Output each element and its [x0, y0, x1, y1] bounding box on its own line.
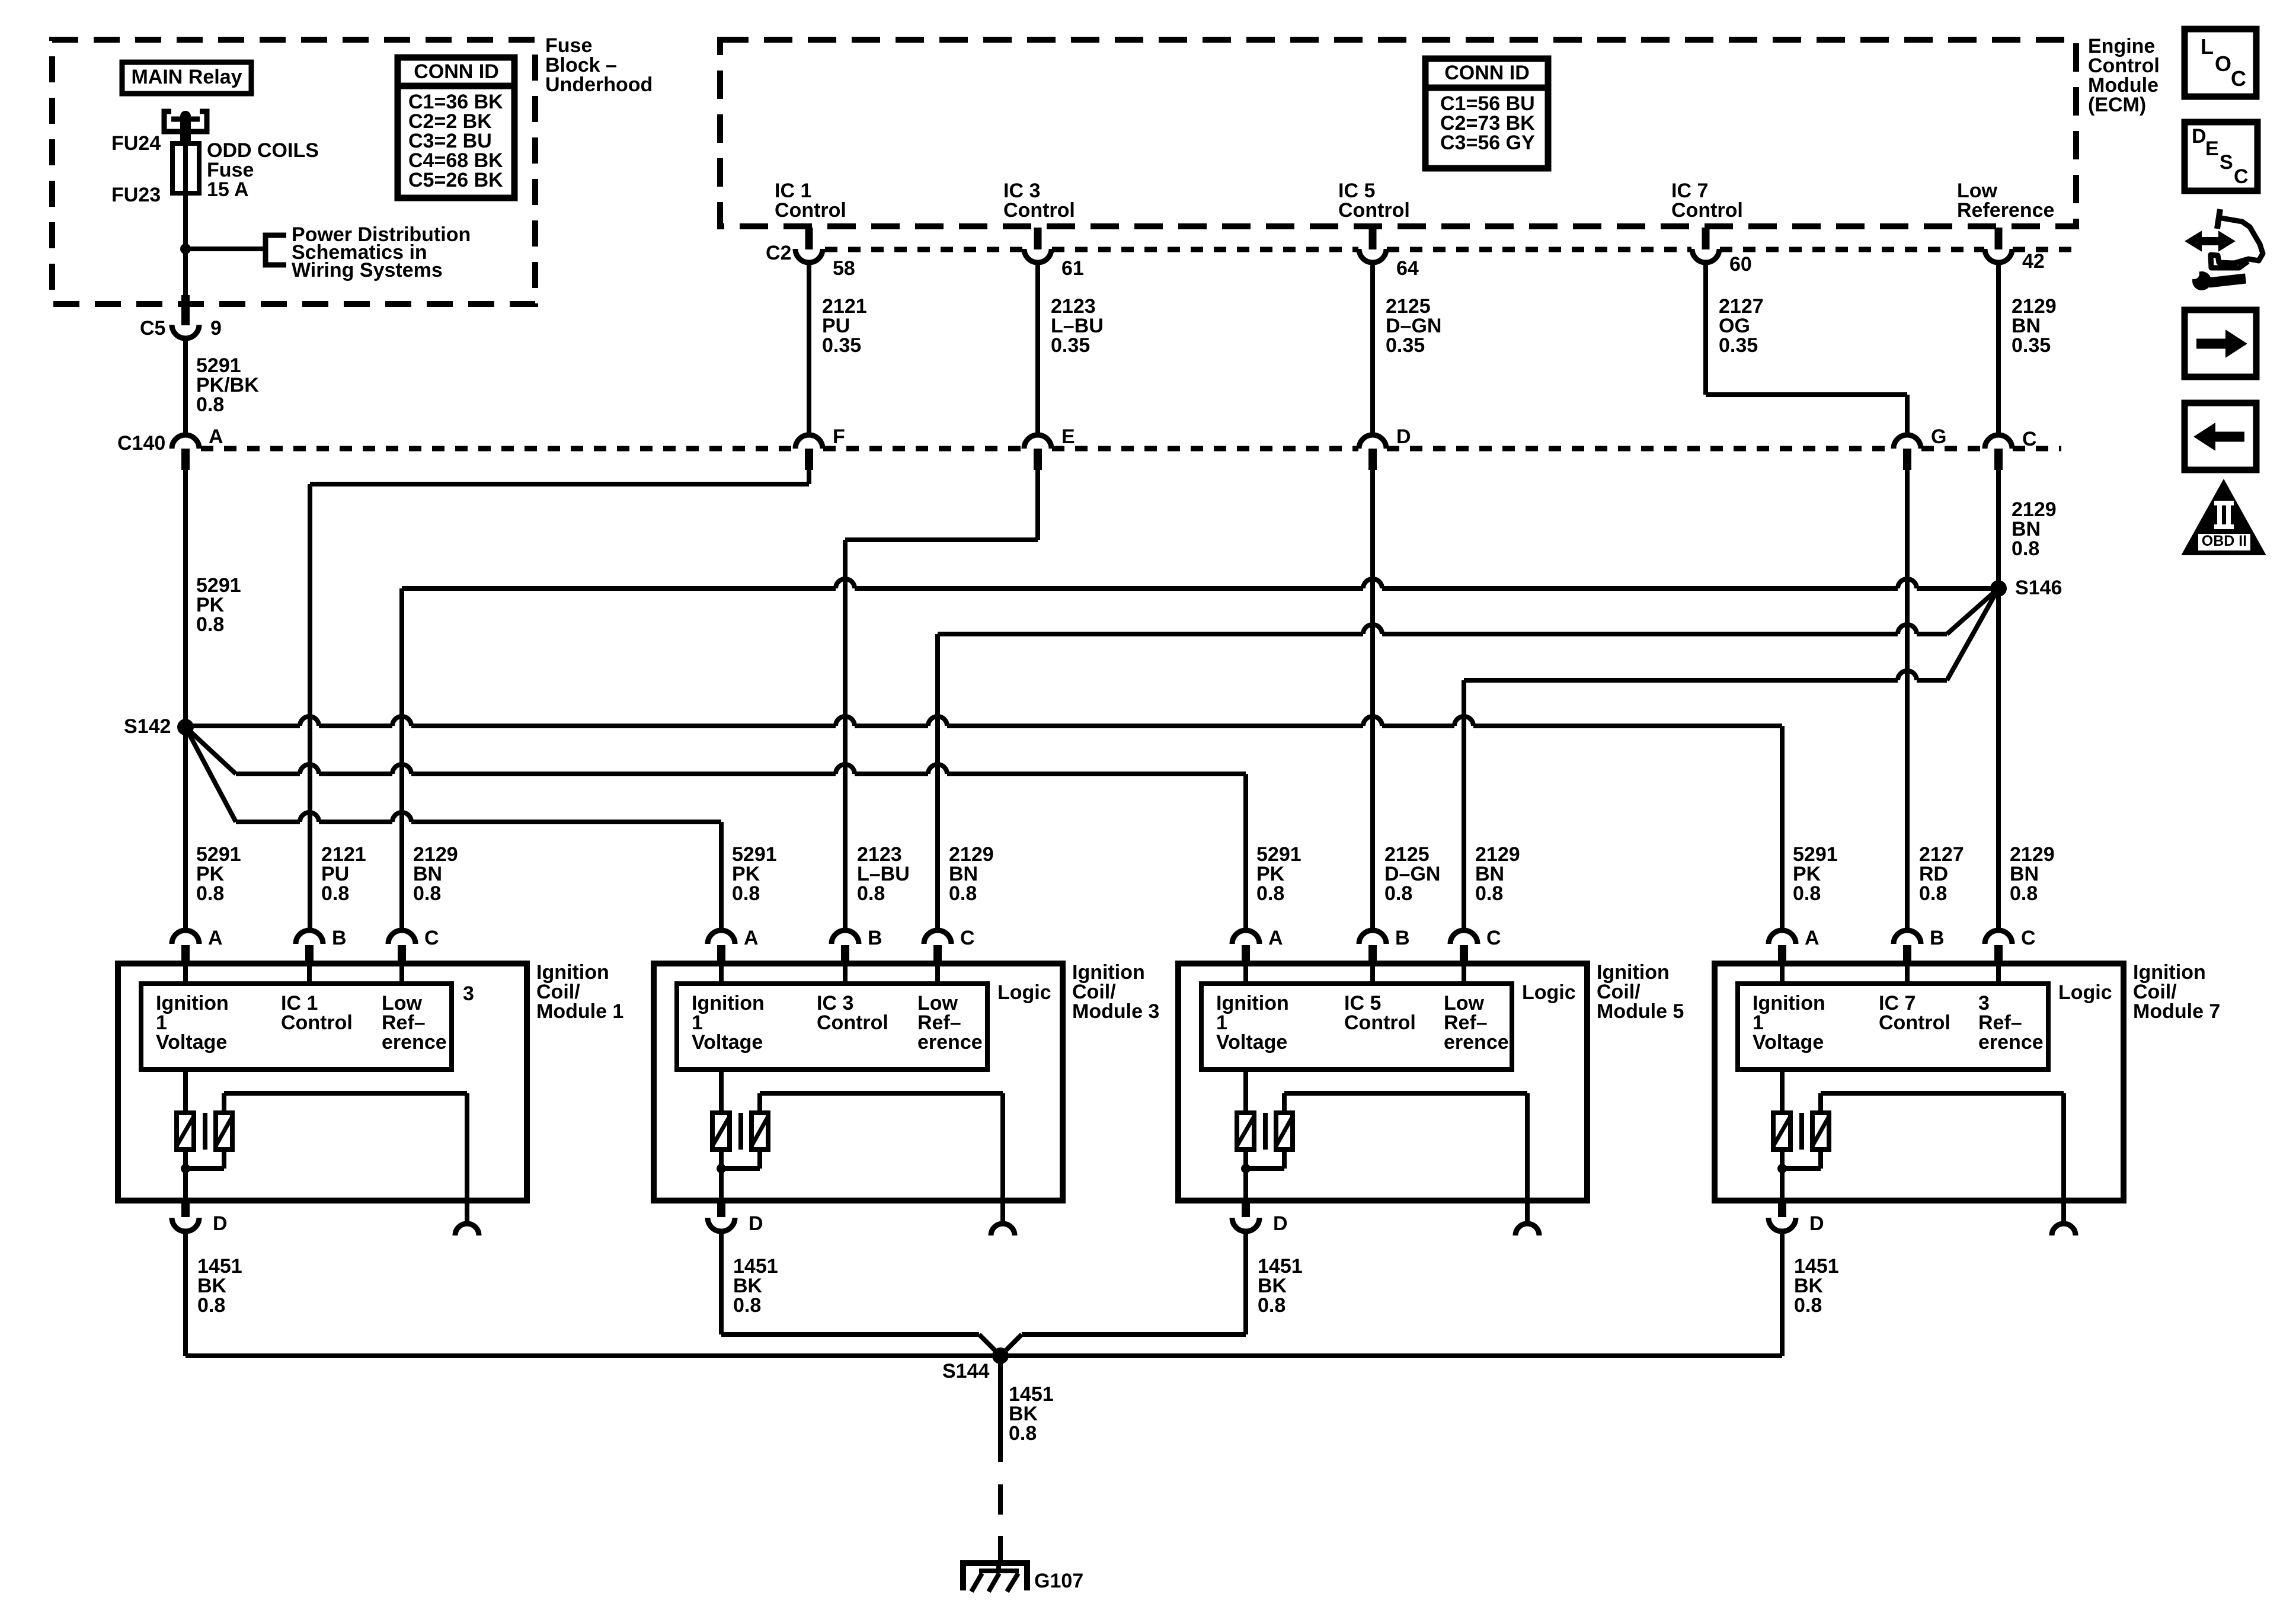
module 3 pin C connector (cap): [924, 930, 951, 964]
svg-text:0.8: 0.8: [196, 882, 224, 905]
svg-text:42: 42: [2022, 250, 2045, 273]
connector C2 terminal 58 (cup): [795, 249, 823, 263]
label C at C140: [2022, 428, 2037, 450]
ECM pin stub 64: [1369, 228, 1377, 249]
junction dot at relay terminal: [171, 111, 200, 121]
wire - fuse to junction: [183, 193, 188, 249]
svg-text:A: A: [209, 425, 223, 448]
ignition coil 7 core: [1799, 1113, 1804, 1150]
connector C140 pin A (cap): [172, 435, 199, 470]
fuse block CONN ID table: [398, 57, 514, 198]
module 7 pin D connector (cup): [1769, 1218, 1796, 1231]
label wire 2127 OG 0.35: [1719, 295, 1764, 357]
wire 2121 PU 0.35 - pin 58 to C140 F: [807, 263, 811, 435]
label B module 3: [868, 927, 882, 949]
svg-text:Control: Control: [1344, 1012, 1416, 1034]
label B module 7: [1930, 927, 1945, 949]
label wire 2129 BN 0.35: [2012, 295, 2057, 357]
label wire 1451 BK 0.8 module 7: [1794, 1255, 1839, 1317]
svg-text:Control: Control: [1879, 1012, 1950, 1034]
junction dot coil 3 common: [717, 1164, 726, 1173]
svg-text:0.8: 0.8: [1793, 882, 1821, 905]
module 7 spark output terminal (cap): [2052, 1224, 2076, 1235]
icon forward arrow box: [2185, 310, 2256, 377]
svg-text:D: D: [1809, 1212, 1824, 1235]
svg-text:0.8: 0.8: [196, 393, 224, 416]
svg-text:MAIN Relay: MAIN Relay: [131, 66, 242, 88]
wire - coil 7 primary to pin D: [1780, 1150, 1785, 1204]
svg-text:A: A: [208, 927, 223, 949]
connector C140 pin G (cap): [1894, 435, 1921, 470]
wire 1451 BK 0.8 below module 5: [1243, 1231, 1248, 1334]
label 9: [210, 317, 222, 340]
label wire 1451 BK 0.8 module 3: [733, 1255, 778, 1317]
module 1 spark output terminal (cap): [455, 1224, 479, 1235]
wire - module 7 pin A into inner box: [1780, 964, 1785, 984]
label F: [833, 425, 845, 448]
svg-text:0.35: 0.35: [1051, 334, 1090, 357]
svg-text:Voltage: Voltage: [156, 1031, 227, 1054]
svg-text:0.8: 0.8: [1475, 882, 1503, 905]
label C module 5: [1486, 927, 1501, 949]
ground G107 symbol: [963, 1563, 1027, 1592]
label FU23: [111, 184, 161, 206]
label wire 5291 PK 0.8 at module 5 pin A: [1256, 843, 1302, 905]
wire 5291 PK 0.8 - C140 to splice S142: [183, 470, 188, 727]
svg-text:D: D: [2192, 125, 2207, 148]
svg-text:0.8: 0.8: [197, 1294, 225, 1317]
ECM pin stub 42: [1995, 228, 2003, 249]
icon OBD II triangle: [2182, 480, 2265, 555]
svg-text:9: 9: [210, 317, 222, 340]
label C5: [140, 317, 165, 340]
module 7 pin C connector (cap): [1985, 930, 2012, 964]
wire - module5 pin C vertical: [1462, 680, 1466, 930]
svg-text:B: B: [1930, 927, 1945, 949]
label ODD COILS Fuse 15 A: [207, 139, 319, 201]
svg-text:C: C: [1486, 927, 1501, 949]
label D module 3: [749, 1212, 763, 1235]
svg-text:erence: erence: [917, 1031, 983, 1054]
label wire 1451 BK 0.8 at S144: [1009, 1383, 1054, 1445]
svg-text:Control: Control: [1003, 199, 1075, 222]
svg-text:0.35: 0.35: [822, 334, 861, 357]
wire rail 2129 BN - S146 left to module1 pin C: [402, 579, 1998, 588]
svg-text:D: D: [1273, 1212, 1288, 1235]
module 5 pin D connector (cup): [1232, 1218, 1259, 1231]
svg-text:0.8: 0.8: [1258, 1294, 1285, 1317]
ignition coil module 5 inner logic box: [1201, 984, 1512, 1070]
label IC 1 Control (ECM pin 58): [775, 180, 846, 222]
wire dashed continuation to G107: [998, 1484, 1003, 1564]
svg-text:F: F: [833, 425, 845, 448]
svg-text:Logic: Logic: [1522, 981, 1576, 1004]
wire - coil 7 secondary high tension lead: [1821, 1093, 2064, 1222]
wire rail 2129 BN - S146 to module3 pin C: [938, 588, 1998, 634]
module 3 pin B connector (cap): [832, 930, 859, 964]
svg-text:0.8: 0.8: [1794, 1294, 1822, 1317]
wire 2121 - C140 F jog down-left to module1 pin B: [310, 470, 809, 930]
wire - module 7 pin B into inner box: [1905, 964, 1910, 984]
label Logic module 3: [997, 981, 1051, 1004]
label Power Distribution Schematics in Wiring Systems: [292, 223, 471, 281]
svg-text:Module 5: Module 5: [1597, 1000, 1684, 1023]
label Ignition 1 Voltage module 3: [692, 992, 765, 1054]
svg-text:D: D: [1396, 425, 1411, 448]
icon LOC box: [2185, 29, 2256, 97]
wire - coil 5 secondary high tension lead: [1284, 1093, 1527, 1222]
wire - coil 7 secondary return: [1782, 1150, 1821, 1169]
label wire 2129 BN 0.8 at module 3 pin C: [949, 843, 994, 905]
label wire 5291 PK/BK 0.8: [196, 354, 259, 416]
label 58: [833, 257, 855, 280]
svg-text:0.35: 0.35: [1719, 334, 1758, 357]
label 42: [2022, 250, 2045, 273]
ignition coil 7 primary winding: [1773, 1113, 1790, 1150]
label wire 2123 L–BU 0.8 at module 3 pin B: [857, 843, 910, 905]
ignition coil module 3 inner logic box: [677, 984, 987, 1070]
wire - module3 pin A vertical: [719, 822, 724, 930]
svg-text:Voltage: Voltage: [1216, 1031, 1287, 1054]
connector C2 dotted line: [825, 247, 2076, 252]
svg-text:C: C: [2234, 165, 2249, 188]
ECM pin stub 61: [1034, 228, 1042, 249]
svg-text:CONN ID: CONN ID: [414, 60, 499, 83]
svg-text:0.35: 0.35: [2012, 334, 2051, 357]
svg-text:C: C: [2022, 428, 2037, 450]
wire rail 5291 PK - S142 right to module7 pin A: [186, 716, 1782, 726]
svg-text:B: B: [332, 927, 347, 949]
wire 2125 - C140 D down to module5 pin B: [1370, 470, 1375, 930]
label Ignition 1 Voltage module 7: [1753, 992, 1825, 1054]
wire - module 3 pin A into inner box: [719, 964, 724, 984]
wire - module 1 pin B into inner box: [307, 964, 312, 984]
label A module 1: [208, 927, 223, 949]
ECM pin stub 60: [1702, 228, 1710, 249]
label 64: [1396, 257, 1419, 280]
connector C5 terminal 9 (female cup): [172, 325, 199, 338]
wire 2127 RD - C140 G down to module7 pin B: [1905, 470, 1910, 930]
junction dot coil 7 common: [1777, 1164, 1787, 1173]
svg-text:E: E: [1061, 425, 1075, 448]
connector C2 terminal 64 (cup): [1359, 249, 1386, 263]
label D module 5: [1273, 1212, 1288, 1235]
svg-text:Wiring Systems: Wiring Systems: [292, 259, 443, 281]
label C2: [766, 242, 791, 264]
label 61: [1061, 257, 1084, 280]
wire - coil 3 secondary high tension lead: [760, 1093, 1003, 1222]
module 5 spark output terminal (cap): [1515, 1224, 1539, 1235]
ignition coil module 1 outer box: [118, 964, 527, 1201]
wire - module 1 voltage feed to coil primary: [183, 1070, 188, 1113]
wire 1451 BK - module3 D to S144: [721, 1334, 1000, 1356]
module 3 pin D connector (cup): [708, 1218, 735, 1231]
svg-text:S142: S142: [124, 715, 171, 738]
wire 2123 L-BU 0.35 - pin 61 to C140 E: [1035, 263, 1040, 435]
svg-text:0.8: 0.8: [1009, 1422, 1037, 1445]
label Fuse Block - Underhood: [545, 34, 653, 96]
label Ignition Coil/ Module 7: [2133, 961, 2220, 1023]
label Ignition Coil/ Module 1: [536, 961, 623, 1023]
wire - coil 1 primary to pin D: [183, 1150, 188, 1204]
connector C140 pin D (cap): [1359, 435, 1386, 470]
module 5 pin B connector (cap): [1359, 930, 1386, 964]
label IC 3 Control (ECM pin 61): [1003, 180, 1075, 222]
svg-text:erence: erence: [1978, 1031, 2044, 1054]
svg-text:C5: C5: [140, 317, 165, 340]
label IC 5 Control (ECM pin 64): [1338, 180, 1410, 222]
wire 1451 BK - module1 D to module7 D through S144: [186, 1353, 1782, 1358]
svg-text:Voltage: Voltage: [692, 1031, 763, 1054]
svg-text:C: C: [424, 927, 439, 949]
wire 2125 D-GN 0.35 - pin 64 to C140 D: [1370, 263, 1375, 435]
ignition coil 1 primary winding: [177, 1113, 194, 1150]
ignition coil module 7 outer box: [1715, 964, 2124, 1201]
label wire 2123 L-BU 0.35: [1051, 295, 1104, 357]
label S146: [2015, 577, 2062, 599]
reference bracket to Power Distribution Schematics: [266, 235, 286, 265]
wire 1451 BK 0.8 below module 3: [719, 1231, 724, 1334]
label FU24: [111, 132, 161, 155]
svg-text:0.8: 0.8: [733, 1294, 761, 1317]
wire - coil 3 secondary return: [721, 1150, 760, 1169]
wire - module7 pin A vertical: [1780, 726, 1785, 930]
svg-text:Control: Control: [775, 199, 846, 222]
svg-text:0.8: 0.8: [413, 882, 441, 905]
wire - S142 down to module1 pin A: [183, 727, 188, 930]
label 60: [1729, 253, 1752, 276]
label A at C140: [209, 425, 223, 448]
label C140: [117, 432, 165, 454]
label C module 3: [960, 927, 975, 949]
module 1 pin D stub: [181, 1201, 190, 1217]
label wire 2125 D–GN 0.8 at module 5 pin B: [1384, 843, 1440, 905]
svg-text:61: 61: [1061, 257, 1084, 280]
svg-text:D: D: [749, 1212, 763, 1235]
wire - module 3 voltage feed to coil primary: [719, 1070, 724, 1113]
ignition coil module 3 outer box: [654, 964, 1063, 1201]
wire - coil 3 primary to pin D: [719, 1150, 724, 1204]
ignition coil 1 core: [203, 1113, 207, 1150]
relay contact terminal cup below MAIN Relay: [164, 111, 207, 132]
ignition coil 3 core: [738, 1113, 743, 1150]
label IC 3 Control module 3: [817, 992, 888, 1034]
svg-text:C: C: [960, 927, 975, 949]
label Ignition Coil/ Module 5: [1597, 961, 1684, 1023]
svg-text:Module 1: Module 1: [536, 1000, 623, 1023]
wire - module3 pin C vertical: [935, 634, 940, 930]
ignition coil module 7 inner logic box: [1738, 984, 2048, 1070]
module 7 pin B connector (cap): [1894, 930, 1921, 964]
module 1 pin B connector (cap): [296, 930, 323, 964]
ignition coil 5 primary winding: [1237, 1113, 1254, 1150]
svg-text:C5=26 BK: C5=26 BK: [408, 169, 503, 191]
label wire 5291 PK 0.8 at module 7 pin A: [1793, 843, 1838, 905]
svg-text:Voltage: Voltage: [1753, 1031, 1824, 1054]
svg-text:15 A: 15 A: [207, 178, 249, 201]
connector C2 terminal 42 (cup): [1985, 249, 2012, 263]
svg-text:S: S: [2220, 151, 2233, 174]
ignition coil 1 secondary winding: [216, 1113, 232, 1150]
wire 1451 BK 0.8 below module 1: [183, 1231, 188, 1356]
wire - module 1 pin A into inner box: [183, 964, 188, 984]
wire - module 7 pin C into inner box: [1996, 964, 2001, 984]
connector C140 dotted line: [201, 446, 2061, 452]
svg-text:Module 3: Module 3: [1072, 1000, 1159, 1023]
svg-text:D: D: [213, 1212, 228, 1235]
wire 2129 - C140 C down to splice S146 and module7 pin C: [1996, 470, 2001, 930]
svg-text:64: 64: [1396, 257, 1419, 280]
wire - module 1 pin C into inner box: [399, 964, 404, 984]
connector C2 terminal 60 (cup): [1692, 249, 1719, 263]
svg-text:CONN ID: CONN ID: [1444, 62, 1530, 84]
ignition coil module 1 inner logic box: [141, 984, 452, 1070]
label wire 1451 BK 0.8 module 1: [197, 1255, 242, 1317]
label S144: [942, 1360, 989, 1382]
svg-text:(ECM): (ECM): [2088, 94, 2146, 116]
splice S146 dot: [1990, 580, 2007, 597]
svg-text:0.8: 0.8: [1919, 882, 1947, 905]
wire - module 5 pin B into inner box: [1370, 964, 1375, 984]
svg-text:C3=56 GY: C3=56 GY: [1440, 132, 1535, 154]
ignition coil 3 secondary winding: [752, 1113, 768, 1150]
svg-text:L: L: [2201, 34, 2214, 59]
label Low/Ref–/erence module 1: [382, 992, 447, 1054]
svg-text:S144: S144: [942, 1360, 989, 1382]
fuse block - underhood dashed boundary box: [52, 40, 535, 304]
wire - coil 1 secondary return: [186, 1150, 224, 1169]
svg-text:C2: C2: [766, 242, 791, 264]
module 5 pin A connector (cap): [1232, 930, 1259, 964]
fuse FU23/FU24 ODD COILS 15 A: [172, 143, 199, 193]
module 1 pin A connector (cap): [172, 930, 199, 964]
wire 2127 OG 0.35 - pin 60 jog to C140 G: [1706, 263, 1907, 435]
splice S144 dot: [992, 1347, 1009, 1364]
wire - module 5 pin A into inner box: [1243, 964, 1248, 984]
junction dot power distribution tap: [180, 244, 191, 254]
label B module 5: [1395, 927, 1410, 949]
wire - module 7 voltage feed to coil primary: [1780, 1070, 1785, 1113]
label Ignition Coil/ Module 3: [1072, 961, 1159, 1023]
icon service wrench with arrows: [2186, 209, 2263, 290]
svg-text:A: A: [1268, 927, 1283, 949]
label IC 7 Control module 7: [1879, 992, 1950, 1034]
splice S142 dot: [177, 719, 194, 735]
label wire 2129 BN 0.8 at module 5 pin C: [1475, 843, 1520, 905]
wire 2129 BN 0.35 - pin 42 to C140 C: [1996, 263, 2001, 435]
label wire 2125 D-GN 0.35: [1386, 295, 1441, 357]
label G107: [1034, 1570, 1083, 1592]
wire 1451 BK 0.8 - S144 to ground: [998, 1356, 1003, 1462]
svg-text:B: B: [1395, 927, 1410, 949]
svg-text:60: 60: [1729, 253, 1752, 276]
svg-text:0.8: 0.8: [2010, 882, 2038, 905]
wire 5291 PK/BK 0.8 - C5 to C140: [183, 338, 188, 435]
svg-text:0.8: 0.8: [1256, 882, 1284, 905]
junction dot coil 1 common: [181, 1164, 190, 1173]
ignition coil 3 primary winding: [712, 1113, 730, 1150]
ignition coil 5 secondary winding: [1276, 1113, 1293, 1150]
label IC 5 Control module 5: [1344, 992, 1416, 1034]
svg-text:A: A: [1805, 927, 1819, 949]
svg-text:Control: Control: [281, 1012, 353, 1034]
wire - coil 5 secondary return: [1246, 1150, 1284, 1169]
svg-text:C140: C140: [117, 432, 165, 454]
wire rail 5291 PK - S142 to module3 pin A: [186, 727, 721, 822]
wire 1451 BK - module5 D to S144: [1000, 1334, 1246, 1356]
label D module 7: [1809, 1212, 1824, 1235]
svg-text:0.8: 0.8: [949, 882, 977, 905]
wire - module 3 pin B into inner box: [843, 964, 848, 984]
svg-text:C: C: [2021, 927, 2036, 949]
wire 1451 BK 0.8 below module 7: [1780, 1231, 1785, 1356]
svg-text:B: B: [868, 927, 882, 949]
module 1 pin D connector (cup): [172, 1218, 199, 1231]
label E: [1061, 425, 1075, 448]
connector C140 pin F (cap): [795, 435, 823, 470]
label wire 2127 RD 0.8 at module 7 pin B: [1919, 843, 1964, 905]
label wire 2129 BN 0.8 at module 7 pin C: [2010, 843, 2055, 905]
svg-text:O: O: [2215, 52, 2231, 76]
svg-text:Control: Control: [817, 1012, 888, 1034]
module 3 pin A connector (cap): [708, 930, 735, 964]
wire - junction down to connector C5 (thick stub through box edge): [183, 249, 188, 325]
icon back arrow box: [2185, 403, 2256, 470]
wire - module5 pin A vertical: [1243, 774, 1248, 930]
connector C140 pin E (cap): [1024, 435, 1051, 470]
label wire 5291 PK 0.8 at module 3 pin A: [732, 843, 777, 905]
svg-text:Module 7: Module 7: [2133, 1000, 2220, 1023]
module 3 pin D stub: [717, 1201, 725, 1217]
svg-text:0.8: 0.8: [857, 882, 885, 905]
wire - module 5 pin C into inner box: [1462, 964, 1466, 984]
svg-text:Control: Control: [1671, 199, 1743, 222]
label A module 7: [1805, 927, 1819, 949]
connector C2 terminal 61 (cup): [1024, 249, 1051, 263]
ignition coil module 5 outer box: [1178, 964, 1587, 1201]
label Low/Ref–/erence module 5: [1444, 992, 1509, 1054]
module 7 pin D stub: [1778, 1201, 1786, 1217]
wire 2123 - C140 E jog down-left to module3 pin B: [845, 470, 1038, 930]
label Logic module 5: [1522, 981, 1576, 1004]
label 3/Ref–/erence module 7: [1978, 992, 2044, 1054]
label C module 7: [2021, 927, 2036, 949]
relay K MAIN Relay box: [122, 62, 251, 94]
label wire 2121 PU 0.35: [822, 295, 867, 357]
label C module 1: [424, 927, 439, 949]
svg-text:0.8: 0.8: [1384, 882, 1412, 905]
svg-text:0.8: 0.8: [2012, 537, 2039, 560]
svg-text:erence: erence: [382, 1031, 447, 1054]
module 1 pin C connector (cap): [388, 930, 415, 964]
label Logic module 7: [2058, 981, 2112, 1004]
module 7 pin A connector (cap): [1769, 930, 1796, 964]
label A module 5: [1268, 927, 1283, 949]
svg-text:Control: Control: [1338, 199, 1410, 222]
wire rail 2129 BN - S146 to module5 pin C: [1464, 588, 1998, 680]
wire - module 5 voltage feed to coil primary: [1243, 1070, 1248, 1113]
svg-text:Logic: Logic: [2058, 981, 2112, 1004]
wire - relay terminal to fuse FU24 (thick stub): [180, 119, 191, 145]
wire rail 5291 PK - S142 to module5 pin A: [186, 727, 1246, 774]
svg-text:S146: S146: [2015, 577, 2062, 599]
ignition coil 5 core: [1263, 1113, 1268, 1150]
svg-text:OBD II: OBD II: [2202, 533, 2247, 549]
label 3 module 1: [463, 982, 474, 1005]
svg-text:58: 58: [833, 257, 855, 280]
svg-text:Reference: Reference: [1957, 199, 2054, 222]
label wire 2121 PU 0.8 at module 1 pin B: [321, 843, 366, 905]
